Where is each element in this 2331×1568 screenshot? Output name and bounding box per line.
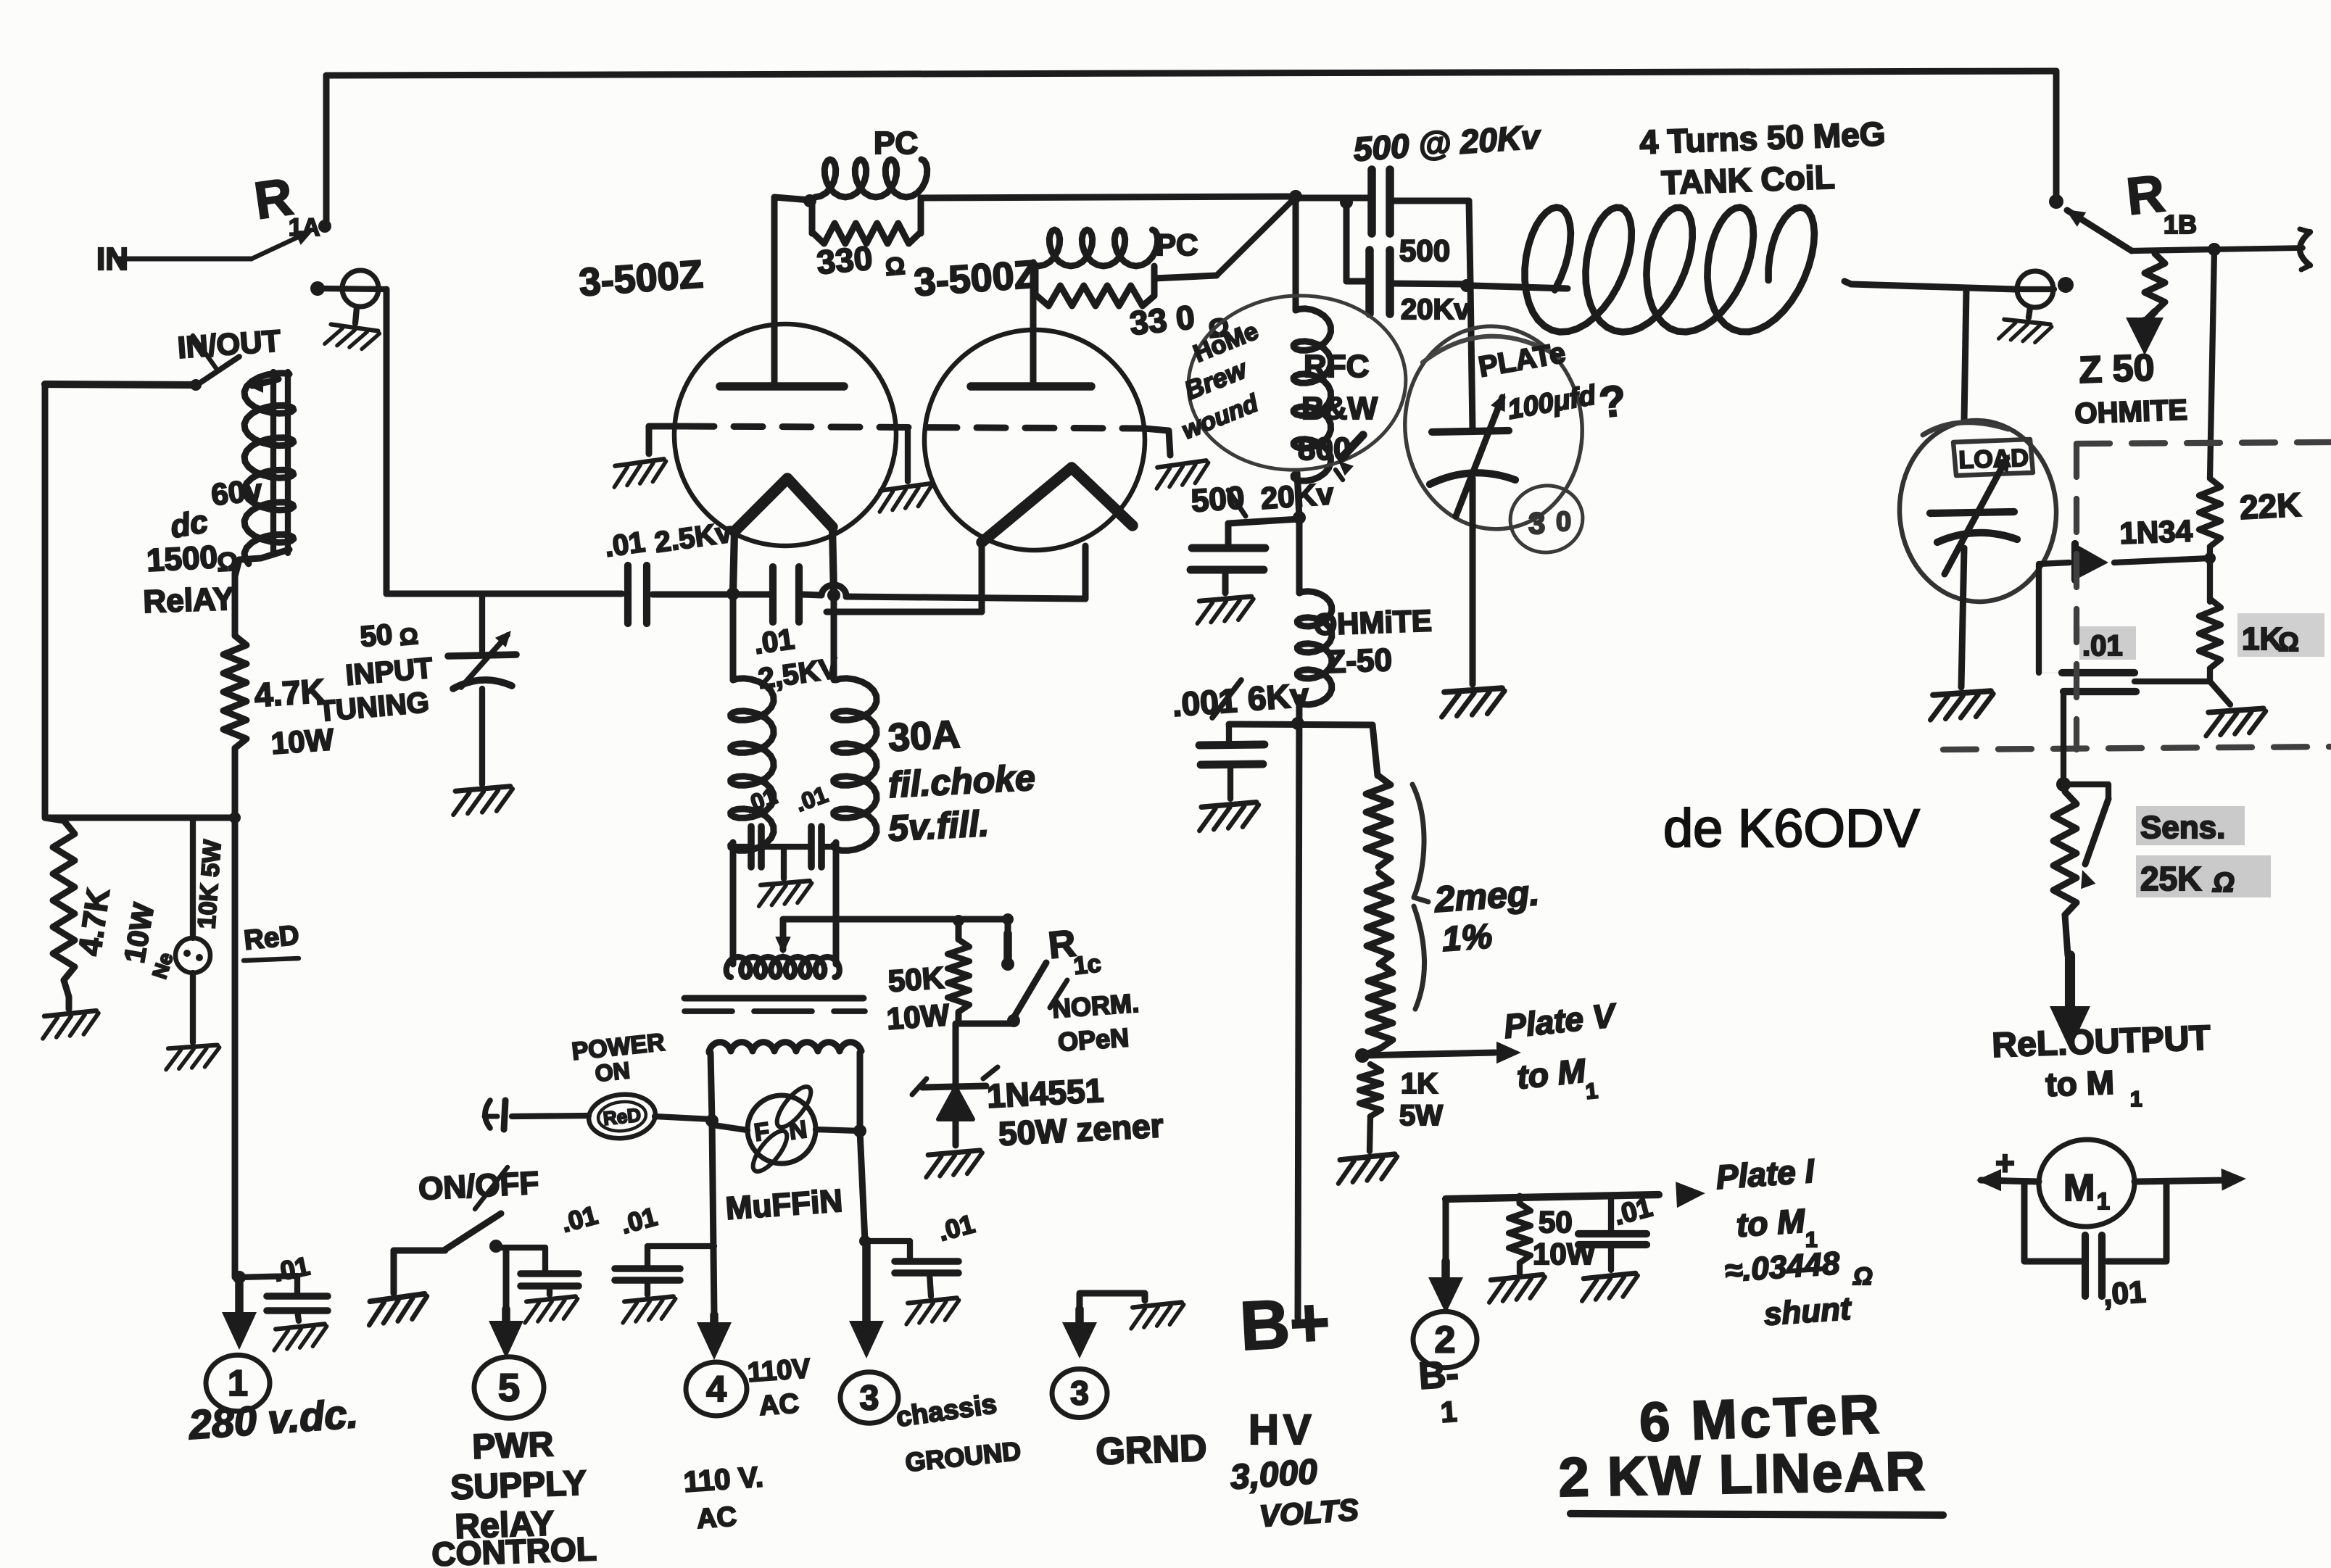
svg-text:VOLTS: VOLTS: [1258, 1493, 1359, 1533]
svg-text:NORM.: NORM.: [1051, 988, 1140, 1024]
svg-text:20Kv: 20Kv: [1259, 476, 1335, 515]
svg-text:B-: B-: [1417, 1353, 1460, 1398]
svg-text:AC: AC: [696, 1501, 738, 1535]
svg-text:N: N: [787, 1116, 809, 1145]
svg-text:Ω: Ω: [2278, 627, 2299, 657]
svg-text:fil.choke: fil.choke: [887, 757, 1036, 805]
svg-text:3-500Z: 3-500Z: [578, 252, 705, 304]
svg-text:B+: B+: [1238, 1284, 1332, 1365]
svg-text:4: 4: [706, 1369, 726, 1409]
svg-text:.01: .01: [2082, 630, 2123, 662]
svg-text:Sens.: Sens.: [2140, 810, 2225, 845]
svg-text:PWR: PWR: [472, 1425, 555, 1467]
svg-text:RFC: RFC: [1304, 349, 1369, 384]
svg-text:R: R: [2124, 165, 2167, 226]
svg-text:22K: 22K: [2239, 486, 2302, 526]
svg-text:.001: .001: [1171, 681, 1238, 723]
svg-text:GRND: GRND: [1095, 1427, 1207, 1473]
svg-text:ReL.OUTPUT: ReL.OUTPUT: [1992, 1019, 2211, 1065]
svg-text:1B: 1B: [2164, 210, 2197, 239]
svg-text:ON: ON: [594, 1057, 632, 1087]
svg-text:1N4551: 1N4551: [986, 1071, 1105, 1115]
svg-text:30A: 30A: [887, 713, 961, 760]
svg-text:50: 50: [1539, 1205, 1573, 1239]
svg-text:1500: 1500: [146, 539, 218, 578]
svg-text:0: 0: [1556, 507, 1571, 537]
svg-text:50K: 50K: [887, 961, 945, 998]
svg-text:AC: AC: [758, 1388, 800, 1422]
svg-text:1c: 1c: [1072, 950, 1103, 980]
svg-text:1K: 1K: [1401, 1068, 1438, 1100]
svg-text:3,000: 3,000: [1229, 1453, 1319, 1497]
svg-text:PC: PC: [874, 125, 918, 161]
svg-text:2meg.: 2meg.: [1433, 872, 1541, 920]
svg-text:OPeN: OPeN: [1057, 1022, 1130, 1057]
svg-text:10W: 10W: [270, 722, 335, 760]
svg-text:Ω: Ω: [398, 623, 419, 650]
svg-text:10W: 10W: [885, 997, 951, 1036]
svg-text:5v.fill.: 5v.fill.: [887, 803, 990, 849]
svg-text:Z 50: Z 50: [2078, 347, 2155, 391]
svg-text:3: 3: [860, 1379, 879, 1417]
svg-text:RelAY: RelAY: [143, 581, 235, 620]
svg-text:5: 5: [498, 1366, 520, 1409]
svg-text:to M: to M: [1735, 1201, 1808, 1244]
svg-text:1: 1: [2097, 1188, 2110, 1214]
svg-text:110 V.: 110 V.: [683, 1461, 765, 1498]
svg-text:Ω: Ω: [1852, 1263, 1873, 1290]
svg-text:HV: HV: [1249, 1406, 1316, 1453]
svg-text:20Kv: 20Kv: [1401, 294, 1470, 325]
svg-text:PC: PC: [1156, 228, 1198, 262]
svg-text:Ω: Ω: [884, 252, 906, 281]
svg-text:3: 3: [1070, 1374, 1089, 1412]
svg-text:1: 1: [1584, 1079, 1599, 1104]
svg-text:1%: 1%: [1441, 917, 1494, 959]
svg-text:CONTROL: CONTROL: [431, 1530, 597, 1568]
svg-text:1: 1: [2130, 1087, 2142, 1111]
svg-text:3: 3: [1528, 506, 1545, 540]
svg-text:OHMITE: OHMITE: [2074, 394, 2188, 430]
svg-text:4.7K: 4.7K: [253, 671, 326, 714]
svg-text:1N34: 1N34: [2119, 513, 2194, 549]
svg-text:to M: to M: [1515, 1051, 1589, 1096]
svg-text:50: 50: [359, 618, 394, 653]
svg-text:?: ?: [1597, 376, 1628, 426]
svg-text:Z-50: Z-50: [1326, 642, 1393, 680]
svg-text:330: 330: [815, 238, 874, 281]
svg-text:3-500Z: 3-500Z: [913, 252, 1040, 304]
svg-text:TANK CoiL: TANK CoiL: [1661, 158, 1836, 202]
svg-text:60v: 60v: [210, 473, 264, 512]
svg-text:Plate I: Plate I: [1715, 1152, 1816, 1196]
svg-text:OHMiTE: OHMiTE: [1313, 603, 1433, 642]
svg-text:.01: .01: [603, 526, 647, 563]
svg-text:25K: 25K: [2140, 860, 2201, 897]
svg-text:B&W: B&W: [1301, 391, 1378, 426]
svg-text:ReD: ReD: [602, 1104, 642, 1129]
svg-text:to M: to M: [2045, 1063, 2115, 1103]
svg-text:33 0: 33 0: [1128, 298, 1196, 342]
svg-text:,01: ,01: [2102, 1274, 2147, 1311]
svg-text:2 KW LINeAR: 2 KW LINeAR: [1558, 1440, 1927, 1509]
svg-text:6Kv: 6Kv: [1246, 676, 1310, 718]
svg-text:de K6ODV: de K6ODV: [1663, 798, 1920, 858]
svg-text:shunt: shunt: [1763, 1291, 1853, 1332]
svg-text:dc: dc: [167, 504, 210, 545]
svg-text:Ω: Ω: [2212, 868, 2235, 898]
svg-text:IN/OUT: IN/OUT: [176, 323, 282, 365]
svg-text:1K: 1K: [2242, 621, 2282, 657]
svg-text:1: 1: [1440, 1396, 1458, 1429]
svg-text:5W: 5W: [1399, 1100, 1443, 1132]
svg-text:SUPPLY: SUPPLY: [450, 1464, 587, 1507]
svg-text:110V: 110V: [747, 1353, 812, 1388]
svg-text:ReD: ReD: [243, 920, 301, 956]
svg-text:1A: 1A: [289, 214, 320, 241]
svg-text:M: M: [2063, 1167, 2095, 1209]
svg-text:LOAD: LOAD: [1958, 444, 2029, 474]
svg-text:500: 500: [1399, 233, 1450, 267]
svg-text:.01: .01: [752, 623, 796, 660]
